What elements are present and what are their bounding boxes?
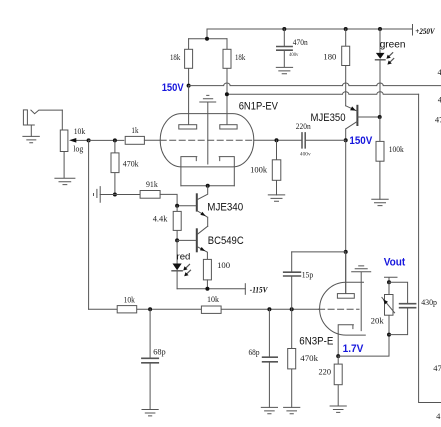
ground under pot (55, 178, 75, 184)
resistor 470k second (288, 309, 296, 407)
resistor 10k second (201, 306, 221, 313)
ground under 220 (330, 406, 346, 412)
wire 1.7V to divider (338, 335, 389, 357)
svg-text:150V: 150V (349, 135, 372, 147)
ground under 100k grid (268, 195, 284, 201)
svg-text:4.4k: 4.4k (153, 213, 168, 223)
svg-text:6N3P-E: 6N3P-E (299, 336, 333, 348)
node wiper (87, 138, 91, 142)
svg-text:10k: 10k (74, 126, 86, 136)
cathode right (219, 157, 234, 186)
ground under jack (23, 136, 39, 142)
node 68p first (148, 307, 152, 311)
anode plate left (179, 125, 197, 129)
ground under 100k (372, 199, 388, 205)
resistor 100k grid (272, 140, 281, 195)
node 15p junction (344, 250, 348, 254)
svg-text:log: log (73, 144, 84, 154)
LED green (376, 29, 394, 117)
wire right box (419, 94, 441, 402)
ground under 470k (284, 407, 300, 413)
node BC549C base (175, 238, 179, 242)
trimmer 20k (382, 282, 395, 334)
capacitor 68p second (263, 309, 278, 407)
grid dashed 6N1P (160, 139, 254, 141)
LED red (172, 240, 191, 288)
svg-text:+250V: +250V (415, 27, 435, 36)
svg-text:400v: 400v (300, 152, 311, 157)
wire 1k to grid (144, 139, 160, 141)
cathode left (181, 157, 197, 186)
grid dashed 6N3P (319, 308, 359, 310)
node rail2 start (225, 92, 229, 96)
wire bottom rail (89, 308, 319, 310)
svg-text:10k: 10k (124, 294, 136, 304)
node 150V left anode (187, 84, 191, 88)
node 18k bar center (205, 37, 209, 41)
svg-text:180: 180 (323, 51, 336, 61)
resistor 470k (111, 140, 119, 194)
ground under 68p second (261, 407, 277, 413)
capacitor 220n (254, 133, 346, 148)
svg-text:green: green (380, 38, 406, 50)
capacitor 68p first (142, 309, 158, 409)
node 470k bottom (113, 193, 117, 197)
node Vout top (387, 280, 391, 284)
svg-text:470k: 470k (123, 158, 139, 168)
wire wiper to 1k (89, 139, 124, 141)
svg-text:10k: 10k (207, 294, 220, 304)
svg-text:430p: 430p (421, 297, 437, 307)
svg-text:68p: 68p (249, 347, 260, 357)
resistor 10k first (117, 306, 137, 313)
svg-text:47: 47 (435, 114, 441, 124)
transistor MJE340 (177, 186, 208, 226)
node top rail / 180 (344, 27, 348, 31)
ground g2 inverted (352, 266, 371, 331)
svg-text:1.7V: 1.7V (343, 343, 364, 355)
svg-text:Vout: Vout (384, 257, 406, 269)
svg-text:220: 220 (319, 367, 332, 377)
anode plate 6N3P (337, 252, 354, 298)
svg-text:1k: 1k (131, 125, 139, 135)
svg-text:18k: 18k (170, 52, 181, 62)
potentiometer 10k log (60, 130, 88, 178)
anode plate right (220, 125, 237, 129)
node 15p bottom (290, 307, 294, 311)
node emitter rail (205, 287, 209, 291)
svg-text:MJE340: MJE340 (207, 201, 243, 213)
wire rail1 with hops (189, 83, 441, 86)
terminal -115V tick (244, 284, 246, 295)
tube 6N3P-E envelope arc (320, 282, 366, 335)
transistor MJE350 (346, 106, 380, 140)
node 150V collector (344, 138, 348, 142)
resistor 180 (342, 29, 350, 106)
svg-text:100k: 100k (250, 164, 268, 174)
svg-text:15p: 15p (302, 270, 314, 280)
resistor 100 (203, 259, 211, 288)
wire collector to anode (345, 140, 347, 293)
node cathode (206, 184, 210, 188)
svg-text:red: red (177, 251, 191, 262)
resistor 100k (base bleed) (376, 117, 384, 199)
terminal +250V tick (412, 25, 414, 36)
resistor 1k (125, 136, 144, 144)
cathode 6N3P (338, 325, 353, 356)
wire 91k to base node (160, 194, 177, 205)
node grid/100k (275, 138, 279, 142)
node top rail / 470n (282, 27, 286, 31)
svg-text:47: 47 (433, 363, 441, 373)
svg-text:100k: 100k (389, 144, 405, 154)
wire -115V rail (177, 288, 245, 290)
node MJE340 base (175, 204, 179, 208)
svg-text:18k: 18k (235, 52, 246, 62)
resistor 18k left (185, 39, 193, 86)
resistor 220 (334, 356, 342, 406)
svg-text:400v: 400v (289, 53, 299, 58)
ground under 68p first (142, 410, 158, 416)
svg-text:-115V: -115V (250, 286, 268, 295)
svg-text:20k: 20k (371, 315, 385, 325)
svg-text:470k: 470k (300, 353, 318, 363)
svg-text:MJE350: MJE350 (311, 112, 346, 124)
jack input (23, 110, 62, 136)
resistor 18k right (223, 39, 231, 125)
wire left column (88, 140, 90, 309)
tube 6N1P-EV envelope (160, 114, 254, 167)
svg-text:68p: 68p (153, 346, 166, 356)
wire cathode join (181, 185, 234, 187)
capacitor 470n (277, 29, 292, 67)
node 470k top (113, 138, 117, 142)
resistor 4.4k (173, 206, 181, 241)
ground sideways (94, 187, 115, 203)
node MJE350 base (378, 115, 382, 119)
svg-text:470n: 470n (293, 37, 309, 47)
capacitor 15p (284, 252, 301, 309)
wire left anode lead (188, 86, 190, 125)
wire top rail +250V (207, 29, 413, 39)
svg-text:100: 100 (217, 260, 230, 270)
ground shield inverted (200, 95, 216, 164)
terminal Vout tick (385, 277, 398, 282)
svg-text:4: 4 (438, 67, 441, 77)
svg-text:4: 4 (436, 411, 441, 421)
wire rail2 with hops (227, 92, 419, 95)
wire 18k pair top bar (189, 38, 227, 40)
wire to 91k (115, 194, 140, 196)
capacitor 430p (389, 282, 416, 334)
transistor BC549C (177, 226, 208, 259)
svg-text:BC549C: BC549C (208, 235, 244, 247)
svg-text:220n: 220n (296, 121, 312, 131)
resistor 91k (140, 191, 160, 199)
wire 15p top (292, 251, 346, 253)
ground under 470n (276, 67, 292, 73)
wire jack to pot (61, 110, 63, 130)
node 1.7V (336, 354, 340, 358)
svg-text:91k: 91k (146, 179, 158, 189)
node divider bottom (387, 333, 391, 337)
node top rail / green LED (378, 27, 382, 31)
svg-text:150V: 150V (162, 82, 185, 94)
svg-text:6N1P-EV: 6N1P-EV (239, 101, 279, 113)
node 68p second (267, 307, 271, 311)
